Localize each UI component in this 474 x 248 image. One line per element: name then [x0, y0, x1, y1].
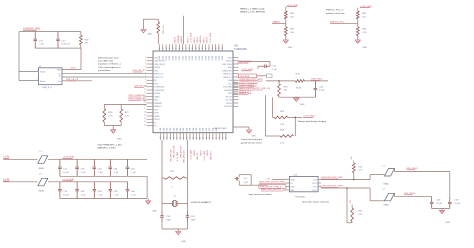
svg-text:44: 44: [179, 47, 181, 49]
power flag +3.3V_HUB: [360, 6, 372, 8]
svg-text:GANGED = 1 (REV: GANGED = 1 (REV: [98, 147, 117, 150]
inductor L3: [38, 151, 48, 170]
svg-text:TESTz: TESTz: [187, 37, 189, 43]
svg-text:OUT2: OUT2: [312, 190, 317, 192]
svg-text:GND: GND: [148, 34, 153, 36]
svg-text:GND: GND: [300, 104, 305, 106]
wire DN1: [395, 169, 450, 198]
svg-text:34: 34: [206, 137, 208, 139]
label CENTER GND: [213, 128, 227, 130]
svg-text:DN1: DN1: [203, 128, 205, 131]
capacitor C29: [448, 198, 461, 209]
svg-text:38: 38: [219, 137, 221, 139]
svg-text:9: 9: [145, 82, 146, 84]
ground: [439, 210, 450, 224]
wire: [239, 62, 271, 67]
svg-text:39: 39: [222, 137, 224, 139]
svg-text:47: 47: [169, 47, 171, 49]
wire XO leg: [187, 140, 189, 204]
svg-text:C23: C23: [319, 86, 324, 88]
svg-text:VDD1: VDD1: [215, 56, 217, 61]
svg-text:36: 36: [205, 47, 207, 49]
svg-text:90.9k: 90.9k: [296, 87, 302, 89]
resistor R26: [103, 104, 113, 125]
svg-text:Differential pairs must: Differential pairs must: [98, 57, 119, 60]
svg-text:VDD0: VDD0: [212, 56, 214, 61]
svg-text:34: 34: [212, 47, 214, 49]
svg-text:C86: C86: [131, 191, 136, 193]
wire: [432, 209, 450, 211]
svg-text:2: 2: [145, 59, 146, 61]
svg-text:VDD1: VDD1: [163, 56, 165, 61]
U20 right pins: [222, 57, 239, 108]
resistor R30: [351, 156, 363, 180]
svg-text:R21 4.7k: R21 4.7k: [163, 25, 165, 33]
wire: [19, 31, 81, 33]
svg-text:GANG_PWR_EN#/PRT_PWR: GANG_PWR_EN#/PRT_PWR: [259, 181, 285, 184]
svg-text:R27: R27: [125, 112, 130, 114]
svg-text:10k: 10k: [362, 16, 366, 18]
svg-text:GND: GND: [446, 222, 451, 224]
power flag +3.3V_HUB: [62, 156, 74, 158]
svg-text:C31: C31: [191, 216, 196, 218]
svg-text:CHASSIS_GND: CHASSIS_GND: [23, 27, 40, 30]
svg-text:DN1: DN1: [190, 128, 192, 131]
connector J1: [38, 66, 62, 89]
svg-text:8: 8: [145, 79, 146, 81]
svg-text:46: 46: [172, 47, 174, 49]
svg-text:R29: R29: [280, 129, 285, 131]
wire to bead L1: [370, 175, 384, 180]
inductor L2: [383, 189, 395, 207]
svg-text:VDD3: VDD3: [182, 56, 184, 61]
wire: [288, 117, 302, 136]
svg-text:+3.3V_HUB: +3.3V_HUB: [177, 151, 179, 162]
svg-text:1: 1: [37, 70, 38, 72]
svg-text:.1 µF: .1 µF: [131, 195, 137, 197]
net label DN1_VBUS: [407, 168, 419, 170]
wire: [279, 96, 315, 99]
svg-text:VDD3: VDD3: [169, 56, 171, 61]
op-amp U20 body: [153, 51, 233, 133]
svg-text:22 µF: 22 µF: [454, 203, 460, 205]
wire thermal pad: [233, 127, 249, 130]
svg-text:42: 42: [186, 47, 188, 49]
svg-text:GND: GND: [71, 68, 76, 70]
capacitor C84: [93, 182, 95, 190]
capacitor C23: [314, 81, 326, 97]
wire VBUS stub: [62, 80, 92, 82]
inductor L1: [383, 166, 395, 185]
svg-text:USB_B_F: USB_B_F: [42, 87, 52, 89]
wire OVERCUR2: [321, 187, 370, 189]
svg-text:4.7k: 4.7k: [125, 116, 130, 118]
svg-text:28: 28: [186, 137, 188, 139]
pin stub: [62, 69, 66, 71]
svg-text:Shield: Shield: [40, 81, 45, 83]
svg-text:10k: 10k: [290, 32, 294, 34]
svg-text:4.7k: 4.7k: [280, 124, 285, 126]
svg-text:R43: R43: [362, 13, 367, 15]
inductor L4: [38, 173, 48, 192]
svg-text:Vcc: Vcc: [58, 81, 61, 83]
svg-text:10%, routed adjacent to: 10%, routed adjacent to: [98, 66, 121, 69]
svg-text:19: 19: [144, 115, 146, 117]
svg-text:35: 35: [209, 47, 211, 49]
svg-text:.1 µF: .1 µF: [114, 172, 120, 174]
capacitor C17: [59, 159, 61, 167]
svg-text:27: 27: [183, 137, 185, 139]
svg-text:VDD0: VDD0: [199, 56, 201, 61]
note power mgmt: [98, 144, 124, 149]
svg-text:+5V: +5V: [266, 179, 270, 181]
net labels below U20: [170, 145, 212, 163]
resistor R42: [284, 27, 295, 36]
net label USB_VBUS: [311, 79, 323, 81]
svg-text:Shield: Shield: [40, 72, 45, 74]
svg-text:VDD0: VDD0: [186, 56, 188, 61]
resistor R25: [278, 81, 289, 97]
svg-text:FULLPWR: FULLPWR: [223, 87, 232, 89]
capacitor C30: [160, 204, 171, 230]
net label GND: [71, 68, 76, 70]
svg-text:+5V: +5V: [350, 200, 352, 204]
svg-text:C83: C83: [80, 191, 85, 193]
net labels right of U20: [233, 79, 270, 95]
svg-text:GRSTz: GRSTz: [226, 61, 232, 63]
wire: [162, 229, 188, 232]
svg-text:21: 21: [163, 137, 165, 139]
net label OVERCUR2: [321, 186, 343, 188]
capacitor C85: [109, 182, 111, 190]
svg-text:RST/SDA: RST/SDA: [240, 75, 250, 78]
svg-text:18pF: 18pF: [166, 219, 172, 221]
svg-text:23: 23: [170, 137, 172, 139]
svg-text:VDD2: VDD2: [192, 56, 194, 61]
ground: [146, 201, 158, 213]
svg-text:HS_UP: HS_UP: [226, 96, 233, 98]
wire USB_VBUS: [266, 80, 328, 82]
svg-text:VDD3: VDD3: [196, 56, 198, 61]
svg-text:VDD33: VDD33: [197, 36, 199, 43]
svg-text:GND: GND: [291, 179, 296, 181]
svg-text:33: 33: [203, 137, 205, 139]
svg-text:20: 20: [144, 118, 146, 120]
svg-text:1M: 1M: [85, 43, 88, 45]
svg-text:39: 39: [196, 47, 198, 49]
wire: [357, 8, 359, 11]
svg-text:C80: C80: [98, 169, 103, 171]
svg-text:40: 40: [226, 137, 228, 139]
svg-text:R26: R26: [108, 112, 113, 114]
U20 bottom pins: [160, 128, 227, 140]
svg-text:29: 29: [190, 137, 192, 139]
svg-text:DN0: DN0: [186, 128, 188, 131]
svg-text:+3.3V_HUB: +3.3V_HUB: [204, 150, 206, 161]
svg-text:VDD11: VDD11: [203, 36, 205, 43]
svg-text:4: 4: [145, 66, 146, 68]
svg-text:GND: GND: [252, 136, 257, 138]
svg-text:DN3: DN3: [170, 128, 172, 131]
wire to bead L2: [370, 188, 384, 201]
svg-text:.1 µF: .1 µF: [80, 172, 86, 174]
svg-text:VDD1: VDD1: [176, 56, 178, 61]
wire USB D-: [62, 76, 147, 78]
svg-text:BEAD: BEAD: [39, 189, 45, 192]
svg-text:+3.3V_HUB: +3.3V_HUB: [191, 149, 193, 160]
svg-text:22: 22: [144, 124, 146, 126]
label U20: [234, 46, 247, 51]
power flag +1.1V: [3, 179, 10, 181]
svg-text:0: 0: [172, 187, 174, 189]
svg-text:4.7k: 4.7k: [108, 116, 113, 118]
svg-text:VDD2: VDD2: [205, 56, 207, 61]
capacitor C83: [76, 182, 78, 190]
net label row4: [261, 188, 287, 191]
wire: [285, 36, 287, 40]
svg-text:.1 µF: .1 µF: [39, 44, 45, 46]
power flag +1.1V_HUB: [62, 179, 74, 181]
IC U21 body: [289, 174, 318, 198]
svg-text:37: 37: [202, 47, 204, 49]
svg-text:SMBUS_SDA: SMBUS_SDA: [239, 92, 252, 95]
svg-text:5: 5: [145, 69, 146, 71]
resistor R27: [120, 104, 130, 125]
resistor R20: [79, 32, 89, 48]
wire rail 1.1: [48, 181, 128, 183]
svg-text:FULLPWRMGMT = 1 (Rev: FULLPWRMGMT = 1 (Rev: [98, 144, 124, 146]
svg-text:.1 µF: .1 µF: [98, 195, 104, 197]
svg-text:16: 16: [144, 105, 146, 107]
svg-text:DN3: DN3: [209, 128, 211, 131]
note crystal part: [191, 202, 212, 204]
svg-text:HC049-24.000MBLUT: HC049-24.000MBLUT: [191, 202, 212, 204]
svg-text:1 µF: 1 µF: [244, 182, 249, 184]
capacitor C28: [430, 198, 443, 209]
svg-text:VDD33: VDD33: [154, 93, 160, 95]
wire: [104, 103, 146, 105]
svg-text:R41: R41: [290, 13, 295, 15]
capacitor C25: [261, 64, 277, 71]
resistor R31: [347, 188, 363, 223]
svg-text:25: 25: [177, 137, 179, 139]
svg-text:GRSTz: GRSTz: [154, 116, 160, 118]
svg-text:.1 µF: .1 µF: [131, 172, 137, 174]
net label USB_VB_DP: [66, 79, 79, 81]
wire OVERCUR1: [321, 179, 370, 181]
net label SMBUS: [273, 21, 281, 23]
svg-text:R32: R32: [170, 171, 175, 173]
resistor R41: [284, 11, 295, 19]
svg-text:C29: C29: [454, 200, 459, 202]
wire: [273, 97, 275, 117]
svg-text:VDD2: VDD2: [179, 56, 181, 61]
svg-text:R20: R20: [85, 39, 90, 41]
wire: [3, 181, 37, 183]
svg-text:22 µF: 22 µF: [436, 203, 442, 205]
svg-text:GND: GND: [362, 47, 367, 49]
svg-text:C17: C17: [63, 169, 68, 171]
svg-text:4.7k: 4.7k: [362, 32, 367, 34]
power flag +3.3V: [3, 157, 10, 159]
svg-text:R30: R30: [359, 166, 364, 168]
note thermal pad: [241, 138, 263, 144]
wire: [60, 176, 147, 198]
capacitor C19: [33, 32, 44, 48]
svg-text:10 µF: 10 µF: [63, 172, 69, 174]
ground: [246, 130, 256, 138]
svg-text:ground with lots of vias: ground with lots of vias: [241, 142, 262, 145]
net label USB_RESET: [238, 61, 252, 63]
svg-text:C27: C27: [244, 178, 249, 180]
svg-text:U20: U20: [234, 46, 239, 48]
svg-text:Y1: Y1: [174, 196, 177, 198]
svg-text:12: 12: [144, 92, 146, 94]
net label USB_HS_DM: [134, 86, 147, 88]
wire rail 3.3: [48, 158, 147, 160]
svg-text:OUT1: OUT1: [312, 183, 317, 185]
svg-text:VDD33: VDD33: [226, 103, 232, 105]
power flag +3.3V_HUB: [303, 116, 315, 118]
svg-text:VDD3: VDD3: [209, 56, 211, 61]
svg-text:PWRCTL2: PWRCTL2: [154, 77, 163, 79]
wire: [3, 158, 37, 160]
svg-text:6: 6: [145, 72, 146, 74]
power flag +3.3V_HUB: [286, 5, 298, 7]
net label PWRCTL2: [128, 97, 146, 100]
svg-text:DN2: DN2: [180, 128, 182, 131]
U20 left pins: [144, 56, 166, 127]
capacitor C80: [93, 159, 95, 167]
svg-text:1 µF: 1 µF: [272, 69, 277, 71]
svg-text:DN1: DN1: [163, 128, 165, 131]
svg-text:.1 µF: .1 µF: [114, 195, 120, 197]
svg-text:GND: GND: [181, 241, 186, 243]
svg-text:DN2: DN2: [193, 128, 195, 131]
svg-text:R25: R25: [284, 86, 289, 88]
svg-text:OVERCUR2: OVERCUR2: [154, 90, 164, 92]
svg-text:12 µF: 12 µF: [319, 90, 325, 92]
svg-text:DN0: DN0: [199, 128, 201, 131]
svg-text:.1 µF: .1 µF: [80, 195, 86, 197]
svg-text:SUSPND: SUSPND: [224, 90, 232, 92]
capacitor C27: [235, 175, 251, 186]
power flag CHASSIS_GND: [23, 27, 40, 30]
svg-text:C82: C82: [131, 169, 136, 171]
svg-text:C21: C21: [61, 40, 66, 42]
svg-text:1: 1: [37, 79, 38, 81]
wire: [272, 19, 286, 27]
svg-text:10k: 10k: [284, 90, 288, 92]
svg-text:VDD1: VDD1: [202, 56, 204, 61]
svg-text:GND: GND: [57, 70, 62, 72]
note SMBUS: [240, 8, 265, 13]
svg-text:36: 36: [213, 137, 215, 139]
svg-text:VDD0: VDD0: [159, 56, 161, 61]
svg-text:DN1: DN1: [177, 128, 179, 131]
net labels above U20: [175, 32, 212, 43]
wire: [357, 36, 359, 40]
wire: [35, 47, 81, 49]
svg-text:ground plane: ground plane: [98, 70, 111, 72]
ground: [141, 30, 153, 36]
resistor R32: [162, 171, 188, 189]
svg-text:VDD3: VDD3: [222, 56, 224, 61]
svg-text:VDD11: VDD11: [194, 36, 196, 43]
svg-text:C19: C19: [39, 40, 44, 42]
svg-text:USB_DN2_DM: USB_DN2_DM: [184, 150, 186, 163]
svg-text:GANG: GANG: [154, 95, 160, 98]
wire: [144, 19, 159, 29]
svg-text:DN3: DN3: [196, 128, 198, 131]
svg-text:45: 45: [176, 47, 178, 49]
svg-text:+5V: +5V: [351, 156, 353, 160]
capacitor C81: [109, 159, 111, 167]
svg-text:BEAD: BEAD: [39, 167, 45, 170]
wire: [66, 48, 81, 70]
wire: [60, 199, 148, 201]
capacitor row +3.3V: [58, 159, 136, 176]
svg-text:C76: C76: [63, 191, 68, 193]
svg-text:USB_DN1_DP: USB_DN1_DP: [170, 149, 172, 162]
U21 pins: [287, 179, 322, 192]
svg-text:EN1: EN1: [291, 186, 295, 188]
net label PWRCTL_POL: [330, 21, 345, 23]
svg-text:TPS2066D: TPS2066D: [295, 196, 306, 198]
wire: [19, 79, 38, 81]
svg-text:C84: C84: [98, 191, 103, 193]
svg-text:impedance of 90ohm +/-: impedance of 90ohm +/-: [98, 64, 121, 66]
svg-text:DN3: DN3: [183, 128, 185, 131]
svg-text:SMBCLK: SMBCLK: [154, 106, 162, 108]
svg-text:4.7k: 4.7k: [280, 143, 285, 145]
svg-text:R44: R44: [362, 29, 367, 31]
crystal Y1: [162, 196, 188, 207]
svg-text:VDD33: VDD33: [154, 67, 160, 69]
svg-text:43: 43: [182, 47, 184, 49]
svg-text:R28: R28: [280, 111, 285, 113]
svg-text:BEAD: BEAD: [384, 183, 390, 186]
net label OVERCUR1: [321, 177, 343, 179]
svg-text:PWRON: PWRON: [181, 35, 183, 43]
svg-text:4.7k: 4.7k: [359, 214, 363, 216]
svg-text:DN0: DN0: [173, 128, 175, 131]
svg-text:C79: C79: [80, 169, 85, 171]
svg-text:C28: C28: [436, 200, 441, 202]
svg-text:VDD1: VDD1: [189, 56, 191, 61]
svg-text:USB_DN1_DM: USB_DN1_DM: [174, 145, 176, 158]
wire DN2: [395, 193, 432, 197]
svg-text:OC1: OC1: [313, 179, 317, 181]
svg-text:32: 32: [219, 47, 221, 49]
resistor R28: [274, 111, 288, 126]
capacitor C31: [186, 204, 197, 230]
svg-text:SUSPND: SUSPND: [178, 35, 180, 44]
svg-text:+3.3V_HUB: +3.3V_HUB: [191, 32, 193, 43]
resistor R21: [157, 19, 165, 44]
svg-text:40: 40: [192, 47, 194, 49]
svg-text:11: 11: [144, 89, 146, 91]
svg-text:DN2: DN2: [167, 128, 169, 131]
svg-text:OC2: OC2: [313, 186, 317, 188]
svg-text:L4: L4: [40, 173, 43, 175]
resistor R43: [356, 11, 367, 19]
svg-text:R24: R24: [296, 74, 301, 76]
svg-text:TUSB4020B: TUSB4020B: [234, 49, 247, 51]
svg-text:USB_VBUS: USB_VBUS: [222, 64, 232, 66]
svg-text:PWRCTL_POL = 1: PWRCTL_POL = 1: [326, 10, 344, 12]
svg-text:48: 48: [166, 47, 168, 49]
